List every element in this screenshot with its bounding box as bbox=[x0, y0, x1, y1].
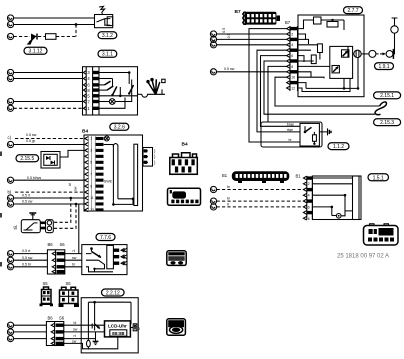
B1 plug illustration bbox=[232, 171, 289, 183]
svg-text:3.1.2: 3.1.2 bbox=[102, 33, 113, 39]
svg-text:S6: S6 bbox=[66, 281, 72, 286]
internal riser2 bbox=[112, 79, 114, 87]
oval 1.9.1 bbox=[375, 63, 394, 70]
contact blade bbox=[129, 85, 133, 94]
SEC3 instrument cluster B4 bbox=[7, 129, 200, 254]
pin terminal n3 bbox=[7, 336, 13, 342]
svg-text:rtge: rtge bbox=[287, 128, 293, 132]
connector block B6S6 bbox=[47, 250, 64, 274]
feeder v6 bbox=[275, 77, 380, 106]
oval 2.7.7 bbox=[344, 7, 363, 14]
svg-text:2.7.7: 2.7.7 bbox=[347, 8, 358, 14]
junction bbox=[112, 203, 115, 206]
switch unit box bbox=[83, 67, 138, 115]
pin terminal b3 bbox=[7, 98, 13, 104]
contact blade3 bbox=[105, 81, 111, 85]
pin terminal a3 bbox=[7, 33, 13, 39]
wire bbox=[14, 24, 95, 26]
diode D1 bbox=[31, 34, 37, 40]
margin mark 2 bbox=[0, 213, 2, 218]
junction bbox=[75, 23, 78, 26]
wire from diode box to cluster bbox=[60, 150, 85, 157]
pin terminal r1 bbox=[210, 186, 216, 192]
svg-text:0.5 sw: 0.5 sw bbox=[26, 133, 37, 137]
wire n2 bbox=[14, 331, 47, 333]
control unit box bbox=[298, 15, 364, 97]
oval 3.2.6 bbox=[110, 123, 129, 130]
clock housing box bbox=[81, 298, 138, 353]
pin terminal a1 bbox=[7, 15, 13, 21]
oval 2.2.12 bbox=[102, 289, 125, 296]
svg-text:6: 6 bbox=[291, 54, 293, 58]
wire br bbox=[14, 266, 48, 268]
junction on wire sw bbox=[75, 203, 78, 206]
svg-text:B6: B6 bbox=[48, 242, 54, 247]
clock internal wires bbox=[312, 177, 352, 179]
connector S box bbox=[95, 15, 113, 28]
svg-text:c): c) bbox=[8, 135, 12, 140]
SEC4 control unit B7 bbox=[210, 7, 400, 150]
squiggle symbol bbox=[375, 102, 386, 115]
switch internals bbox=[90, 247, 93, 250]
sub connector right bbox=[143, 148, 153, 167]
squiggle S lead bbox=[99, 6, 105, 14]
wire bbox=[14, 203, 85, 205]
lamp circle C2 bbox=[369, 50, 376, 57]
B7 plug illustration bbox=[243, 12, 280, 25]
feeder to window switch bbox=[78, 204, 80, 254]
svg-text:8: 8 bbox=[308, 217, 310, 221]
pin terminal f bbox=[7, 201, 13, 207]
SEC5 mirror switch bbox=[7, 234, 186, 308]
svg-text:S6: S6 bbox=[60, 242, 66, 247]
pin terminal n2 bbox=[7, 329, 13, 335]
arrow marker bbox=[27, 38, 34, 45]
svg-text:0.5 gr: 0.5 gr bbox=[26, 139, 36, 143]
pin 4 bbox=[83, 77, 86, 81]
riser to C4 bbox=[393, 33, 394, 54]
svg-text:b): b) bbox=[8, 190, 12, 195]
cluster wire top bbox=[104, 144, 114, 146]
svg-text:brge: brge bbox=[287, 122, 294, 126]
connector block B6S6 b bbox=[46, 322, 63, 346]
resistor R bbox=[46, 34, 57, 40]
svg-text:6: 6 bbox=[308, 205, 310, 209]
pin 1 bbox=[83, 106, 86, 110]
svg-text:g): g) bbox=[14, 225, 18, 230]
wire n1 bbox=[14, 324, 47, 326]
wire sw bbox=[14, 259, 48, 261]
feeder v5 bbox=[268, 66, 287, 122]
feeder v4 bbox=[264, 61, 375, 114]
svg-text:12: 12 bbox=[291, 86, 295, 90]
wire bbox=[38, 36, 46, 38]
wire bbox=[217, 44, 287, 46]
dashed drop to relay bbox=[54, 198, 71, 222]
lamp circle C4 bbox=[391, 26, 398, 33]
pin terminal q1 bbox=[210, 31, 216, 37]
S5 plug illustration bbox=[40, 287, 54, 306]
wire bbox=[56, 36, 76, 38]
sensor ellipse bbox=[87, 340, 91, 347]
striped pin column bbox=[113, 249, 119, 252]
oval 2.15.5 bbox=[16, 155, 39, 162]
svg-text:SWE: SWE bbox=[104, 180, 113, 184]
antenna tick bbox=[392, 18, 398, 26]
wire dashed with diode and resistor bbox=[14, 36, 30, 38]
pin terminal q2 bbox=[210, 36, 216, 42]
svg-text:1.5.1: 1.5.1 bbox=[373, 175, 384, 181]
svg-text:2.2.12: 2.2.12 bbox=[106, 290, 120, 296]
unit internals buses bbox=[298, 34, 330, 92]
wire out sw2 bbox=[64, 337, 118, 349]
internal wire row6b bbox=[115, 80, 132, 102]
LCD box bbox=[105, 321, 131, 337]
wire br out bbox=[65, 266, 82, 268]
svg-text:2: 2 bbox=[291, 32, 293, 36]
clock internal column bbox=[353, 176, 360, 220]
lamp cluster symbol bbox=[142, 89, 165, 97]
resistor R1 bbox=[318, 44, 323, 53]
pin terminal m2 bbox=[7, 257, 13, 263]
svg-text:sw: sw bbox=[73, 328, 78, 332]
wire bbox=[14, 101, 83, 103]
wire bbox=[217, 38, 287, 40]
pin housing bbox=[46, 220, 54, 233]
pin terminal b4 bbox=[7, 105, 13, 111]
heater outer box bbox=[261, 122, 322, 147]
svg-text:rt: rt bbox=[73, 249, 75, 253]
dashed drop to relay2 bbox=[54, 204, 76, 228]
wire bbox=[14, 72, 83, 74]
internal bottom rail bbox=[113, 199, 133, 205]
oval 1.5.1 bbox=[368, 174, 389, 181]
clock face icon bbox=[168, 188, 201, 205]
wire sw out bbox=[65, 259, 82, 261]
internal wire row1 bbox=[99, 72, 129, 74]
svg-text:1: 1 bbox=[90, 137, 92, 141]
internal riser bbox=[128, 73, 130, 85]
unit internals top bbox=[298, 20, 345, 30]
pin terminal d bbox=[7, 177, 13, 183]
pin 6 bbox=[83, 83, 86, 87]
contact blade2 bbox=[113, 87, 117, 96]
feeder v1 bbox=[249, 29, 300, 142]
pin terminal b2 bbox=[7, 75, 13, 81]
wire n3 bbox=[14, 338, 47, 340]
oval 2.15.1 bbox=[374, 92, 401, 99]
svg-text:1.9.1: 1.9.1 bbox=[378, 64, 389, 70]
svg-text:B4: B4 bbox=[82, 129, 88, 135]
wire bbox=[14, 179, 85, 181]
pin terminal r3 bbox=[210, 204, 216, 210]
svg-text:B4: B4 bbox=[182, 141, 188, 147]
oval 3.1.12 bbox=[24, 47, 47, 54]
svg-text:0.5 sw: 0.5 sw bbox=[224, 67, 235, 71]
relay icon illustration bbox=[364, 224, 399, 245]
contact blade4 bbox=[107, 86, 113, 90]
pin 3 bbox=[83, 71, 86, 75]
pin terminal q3 bbox=[210, 42, 216, 48]
S6 plug illustration bbox=[59, 287, 80, 307]
svg-text:sw: sw bbox=[74, 186, 78, 191]
wire br2 bbox=[217, 200, 304, 202]
RELAY G bbox=[14, 213, 54, 233]
lamp circle C3 bbox=[386, 51, 393, 58]
SEC6 LCD clock bbox=[0, 152, 185, 353]
svg-text:0.5 br: 0.5 br bbox=[22, 262, 32, 266]
diode box A K bbox=[41, 152, 60, 169]
internal column bbox=[134, 144, 138, 205]
wire dashed vertical bbox=[75, 25, 77, 37]
oval 7.7.6 bbox=[96, 234, 115, 241]
clock face icon bbox=[167, 319, 186, 335]
margin mark 1 bbox=[0, 152, 2, 157]
svg-text:3.1.12: 3.1.12 bbox=[29, 49, 43, 55]
svg-text:11: 11 bbox=[90, 196, 94, 200]
svg-text:2.15.1: 2.15.1 bbox=[380, 93, 394, 99]
svg-text:2.15.5: 2.15.5 bbox=[20, 156, 34, 162]
pin terminal e bbox=[7, 195, 13, 201]
svg-text:13: 13 bbox=[90, 208, 94, 212]
feeder v2 bbox=[257, 50, 300, 132]
svg-text:3.2.6: 3.2.6 bbox=[114, 125, 125, 131]
svg-text:rt: rt bbox=[227, 202, 229, 206]
svg-text:4: 4 bbox=[308, 194, 310, 198]
transistor symbol bbox=[92, 322, 94, 331]
svg-text:B6: B6 bbox=[48, 316, 54, 321]
clock connector strip bbox=[303, 176, 312, 221]
wire bbox=[14, 78, 83, 80]
pin terminal b1 bbox=[7, 69, 13, 75]
wire out rt bbox=[64, 338, 96, 340]
svg-text:8: 8 bbox=[291, 65, 293, 69]
pin 7 bbox=[83, 100, 86, 104]
svg-text:B1: B1 bbox=[296, 174, 302, 179]
wire out bl bbox=[64, 324, 105, 326]
svg-text:10: 10 bbox=[291, 76, 295, 80]
unit internal link to C1 bbox=[344, 46, 354, 88]
svg-text:88:88: 88:88 bbox=[112, 331, 125, 337]
ground clock bbox=[95, 332, 97, 341]
pin terminal m1 bbox=[7, 251, 13, 257]
dashed arrow bbox=[376, 53, 382, 55]
svg-text:5: 5 bbox=[90, 161, 92, 165]
transistor sq2 bbox=[332, 66, 339, 73]
wire bbox=[14, 17, 95, 19]
connector strip bbox=[85, 67, 87, 115]
pin terminal n1 bbox=[7, 322, 13, 328]
wire dashed c bbox=[15, 138, 85, 140]
svg-text:3.1.1: 3.1.1 bbox=[102, 52, 113, 58]
cluster riser b bbox=[117, 147, 119, 199]
cluster riser a bbox=[112, 145, 114, 205]
svg-text:S5: S5 bbox=[43, 281, 49, 286]
internal wire row5 lamp feed bbox=[99, 95, 138, 97]
mirror switch box bbox=[82, 245, 127, 275]
pin terminal c2 bbox=[7, 141, 13, 147]
pin terminal q4 bbox=[210, 69, 216, 75]
svg-text:S6: S6 bbox=[59, 316, 65, 321]
svg-text:0.5: 0.5 bbox=[227, 33, 231, 38]
oval 3.1.2 bbox=[98, 32, 117, 39]
LCD right pin bbox=[130, 327, 133, 329]
svg-text:sw: sw bbox=[72, 339, 77, 343]
oval 2.15.3 bbox=[374, 119, 401, 126]
svg-text:0.5 rt: 0.5 rt bbox=[22, 194, 30, 198]
wire br bbox=[217, 189, 304, 191]
svg-text:0.5 rt: 0.5 rt bbox=[22, 249, 30, 253]
chevrons bbox=[121, 248, 127, 252]
wire dashed b bbox=[15, 191, 85, 193]
pin 8 bbox=[83, 88, 86, 92]
heater ground bbox=[319, 128, 327, 135]
wire bbox=[217, 71, 287, 73]
svg-text:7.7.6: 7.7.6 bbox=[100, 235, 111, 241]
junction bbox=[119, 95, 122, 98]
svg-text:1.1.2: 1.1.2 bbox=[333, 144, 344, 150]
pin terminal m3 bbox=[7, 264, 13, 270]
svg-text:25 1818 00 97 02 A: 25 1818 00 97 02 A bbox=[337, 254, 389, 260]
wire bbox=[217, 33, 287, 35]
internal wire row7 bbox=[99, 98, 125, 109]
svg-text:bl: bl bbox=[74, 321, 77, 325]
svg-text:0.5 sw: 0.5 sw bbox=[22, 256, 33, 260]
svg-text:2: 2 bbox=[308, 182, 310, 186]
wire rt bbox=[217, 206, 304, 208]
svg-text:2.15.3: 2.15.3 bbox=[380, 120, 394, 126]
relay contact bbox=[24, 223, 38, 230]
svg-text:sw: sw bbox=[72, 256, 77, 260]
wire bbox=[14, 144, 85, 146]
svg-text:B7: B7 bbox=[285, 20, 291, 25]
svg-text:9: 9 bbox=[90, 184, 92, 188]
transistor sq1 bbox=[342, 50, 349, 57]
junction bbox=[128, 71, 131, 74]
cluster arch bbox=[113, 144, 118, 148]
svg-text:0.5 bl/ws: 0.5 bl/ws bbox=[27, 176, 41, 180]
inner module box bbox=[330, 46, 353, 78]
pin terminal a2 bbox=[7, 21, 13, 27]
ground symbol bbox=[32, 214, 34, 220]
SEC2 column switch unit bbox=[7, 67, 165, 131]
svg-text:B7: B7 bbox=[235, 9, 241, 15]
inner rail bbox=[88, 302, 131, 340]
internal wire row2 bbox=[99, 78, 113, 80]
svg-text:rt: rt bbox=[74, 334, 76, 338]
connector strip B7 bbox=[287, 26, 298, 91]
connector strip B4 pins bbox=[85, 136, 104, 212]
relay box bbox=[21, 220, 40, 233]
cluster lamp bbox=[104, 136, 109, 141]
svg-text:bl: bl bbox=[68, 183, 72, 186]
motor circle C1 bbox=[354, 50, 361, 57]
clock box bbox=[312, 176, 361, 220]
svg-text:3: 3 bbox=[90, 149, 92, 153]
heater inner box bbox=[300, 123, 319, 146]
oval 1.1.2 bbox=[328, 143, 349, 150]
wire rt out bbox=[65, 253, 82, 255]
internal wire row3 bbox=[99, 84, 105, 86]
pin terminal r2 bbox=[210, 198, 216, 204]
oval 3.1.1 bbox=[98, 50, 117, 57]
riser row5 bbox=[119, 87, 121, 96]
wire bbox=[14, 197, 85, 199]
margin mark 3 bbox=[0, 262, 2, 267]
svg-text:B1: B1 bbox=[222, 173, 228, 178]
bottom rail bbox=[306, 58, 358, 89]
B4 plug illustration bbox=[170, 153, 198, 175]
cluster box bbox=[84, 135, 143, 211]
svg-text:4: 4 bbox=[291, 43, 293, 47]
svg-text:0.5 sw: 0.5 sw bbox=[22, 200, 33, 204]
svg-text:LCD-Uhr: LCD-Uhr bbox=[108, 324, 127, 329]
wire dashed bbox=[14, 107, 83, 109]
clock motor bbox=[336, 214, 341, 219]
internal wire row6 bbox=[99, 101, 109, 103]
bulb symbol bbox=[109, 99, 115, 105]
LCD display bbox=[110, 330, 127, 336]
heater internals bbox=[304, 131, 307, 134]
wire out sw bbox=[64, 331, 105, 333]
internal wire row4 bbox=[99, 89, 107, 91]
link C1 to C2 bbox=[361, 53, 369, 55]
junction on wire rt bbox=[70, 197, 73, 200]
SECB1 clock module bbox=[210, 171, 398, 259]
switch face icon bbox=[167, 251, 186, 266]
wire rt bbox=[14, 253, 48, 255]
SEC1 antenna circuit bbox=[7, 6, 116, 57]
pin 5 bbox=[83, 94, 86, 98]
resistor R2 bbox=[311, 55, 316, 64]
feeder v3 bbox=[261, 56, 301, 127]
junction bbox=[132, 198, 135, 201]
svg-text:0.5: 0.5 bbox=[222, 28, 226, 33]
internal column bbox=[107, 245, 114, 268]
relay pins bbox=[40, 222, 45, 225]
wire to lamp cluster bbox=[138, 93, 142, 95]
svg-text:7: 7 bbox=[90, 172, 92, 176]
